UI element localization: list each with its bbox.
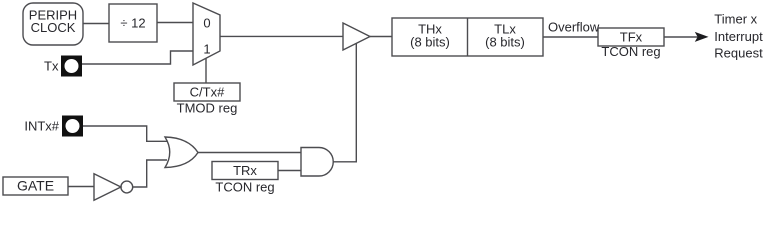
wire TRx to AND gate: [278, 170, 301, 172]
wire mux output to buffer: [220, 35, 343, 37]
wire divider to mux input 0: [157, 22, 193, 24]
inverter gate: [94, 174, 133, 201]
OR gate: [165, 137, 198, 168]
svg-text:GATE: GATE: [17, 177, 54, 193]
svg-text:INTx#: INTx#: [24, 119, 59, 134]
svg-text:0: 0: [203, 16, 210, 31]
wire OR gate to AND gate: [198, 152, 301, 154]
svg-text:÷ 12: ÷ 12: [120, 16, 145, 31]
register bit TRx TCON reg: [212, 162, 278, 195]
svg-text:C/Tx#: C/Tx#: [190, 85, 225, 100]
register bit C/Tx# TMOD reg: [174, 83, 240, 116]
wire INTx# to OR gate: [83, 126, 167, 141]
register THx TLx: [392, 18, 543, 56]
wire GATE to inverter: [68, 186, 94, 188]
svg-text:TCON reg: TCON reg: [601, 44, 660, 59]
svg-text:Timer x: Timer x: [714, 12, 757, 27]
block PERIPH CLOCK: [23, 3, 83, 45]
buffer gate: [343, 23, 370, 50]
svg-text:(8 bits): (8 bits): [410, 35, 450, 50]
wire PERIPH CLOCK to divider: [83, 23, 109, 25]
svg-text:TCON reg: TCON reg: [215, 180, 274, 195]
mux U1: [193, 3, 220, 65]
svg-text:Interrupt: Interrupt: [714, 29, 763, 44]
node Timer x Interrupt Request: [714, 12, 763, 61]
pin INTx#: [24, 116, 83, 137]
wire AND gate to buffer control: [334, 43, 357, 161]
svg-text:Request: Request: [714, 45, 763, 60]
wire inverter to OR gate: [133, 160, 167, 187]
svg-text:Overflow: Overflow: [548, 20, 600, 35]
wire TFx to interrupt arrow: [664, 32, 709, 42]
svg-text:Tx: Tx: [44, 58, 59, 73]
register bit TFx TCON reg: [598, 28, 664, 59]
pin Tx: [44, 56, 82, 77]
svg-text:TRx: TRx: [233, 163, 257, 178]
divider block ÷12: [109, 4, 157, 42]
wire overflow TLx to TFx: [543, 20, 600, 38]
AND gate: [301, 148, 333, 177]
wire mux select to C/Tx#: [205, 59, 207, 84]
wire buffer to THx: [370, 36, 392, 38]
svg-text:1: 1: [203, 42, 210, 57]
svg-text:TFx: TFx: [620, 30, 643, 45]
svg-text:CLOCK: CLOCK: [31, 20, 76, 35]
block GATE: [3, 177, 68, 195]
svg-text:TMOD reg: TMOD reg: [177, 101, 238, 116]
svg-text:(8 bits): (8 bits): [485, 35, 525, 50]
wire Tx pin to mux input 1: [82, 51, 193, 64]
